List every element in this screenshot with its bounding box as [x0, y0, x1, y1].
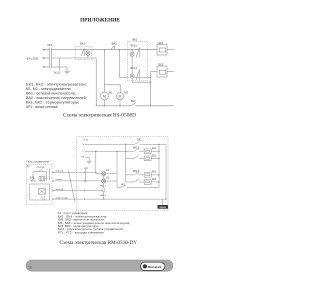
svg-text:ХТ2: ХТ2: [84, 168, 89, 170]
svg-text:КМ2.1: КМ2.1: [100, 195, 107, 197]
svg-text:ВК1.2: ВК1.2: [131, 67, 138, 70]
svg-text:Bimatek: Bimatek: [148, 265, 162, 269]
svg-text:ВК1: ВК1: [132, 37, 137, 41]
svg-text:ВА1: ВА1: [80, 41, 86, 45]
svg-text:ЕК4: ЕК4: [152, 179, 157, 181]
svg-text:ЕК1: ЕК1: [152, 148, 157, 150]
svg-text:Схема электрическая RM-0510-DY: Схема электрическая RM-0510-DY: [60, 241, 138, 246]
svg-text:ЕК2: ЕК2: [152, 156, 157, 158]
svg-text:ВА1 - сетевой выключатель;: ВА1 - сетевой выключатель;: [26, 91, 76, 95]
svg-text:ХР1: ХР1: [47, 43, 53, 47]
svg-text:ВК1: ВК1: [137, 139, 142, 142]
svg-text:КМ2.2: КМ2.2: [133, 171, 140, 173]
svg-text:N: N: [82, 144, 84, 146]
svg-text:Пульт управления: Пульт управления: [27, 159, 50, 163]
svg-text:М1: М1: [109, 91, 113, 95]
svg-text:ХР1 - вилка сетевая: ХР1 - вилка сетевая: [26, 105, 58, 109]
svg-text:~50Гц 220В: ~50Гц 220В: [26, 56, 38, 60]
svg-text:желтый: желтый: [56, 188, 64, 191]
svg-text:К2: К2: [106, 177, 109, 179]
svg-text:К1: К1: [106, 170, 109, 172]
svg-text:Замок: Замок: [159, 206, 167, 209]
svg-text:М: М: [119, 95, 122, 99]
svg-text:ЕК1, ЕК2 - электронагреватели;: ЕК1, ЕК2 - электронагреватели;: [26, 83, 87, 87]
svg-text:черный: черный: [56, 170, 64, 173]
svg-text:ВА2 - выключатель нагревателей: ВА2 - выключатель нагревателей;: [26, 96, 87, 100]
svg-text:ВА2: ВА2: [112, 42, 118, 46]
svg-text:SA2: SA2: [30, 177, 35, 180]
svg-text:ВК1, ВК2 - терморегуляторы;: ВК1, ВК2 - терморегуляторы;: [26, 100, 79, 104]
svg-text:КМ1.1: КМ1.1: [100, 186, 107, 188]
svg-text:ХТ1, ХТ2 - колодки клеммные: ХТ1, ХТ2 - колодки клеммные: [58, 230, 105, 234]
svg-text:Схема электрическая RS-0508D: Схема электрическая RS-0508D: [63, 113, 137, 118]
svg-text:М1, М2 - электродвигатели;: М1, М2 - электродвигатели;: [26, 87, 72, 91]
svg-text:ХТ1: ХТ1: [84, 139, 89, 141]
svg-text:КМ1.2: КМ1.2: [133, 148, 140, 150]
svg-text:ЕК2: ЕК2: [159, 62, 164, 66]
svg-text:L: L: [83, 151, 85, 153]
svg-text:А1: А1: [27, 165, 31, 168]
svg-text:ВК1.1: ВК1.1: [131, 44, 138, 47]
svg-text:синий: синий: [56, 178, 63, 181]
svg-text:коричневый: коричневый: [56, 196, 69, 199]
svg-text:3х1,5: 3х1,5: [54, 71, 61, 75]
svg-text:ВК2: ВК2: [131, 100, 136, 103]
svg-text:ЕК3: ЕК3: [152, 172, 157, 174]
svg-text:ON-OFF: ON-OFF: [36, 167, 45, 169]
svg-text:М2: М2: [124, 91, 128, 95]
svg-text:ПРИЛОЖЕНИЕ: ПРИЛОЖЕНИЕ: [80, 18, 120, 24]
svg-text:ЕК1: ЕК1: [159, 41, 164, 45]
svg-text:М: М: [103, 94, 106, 98]
svg-text:PE: PE: [81, 156, 84, 158]
svg-text:16: 16: [28, 265, 32, 269]
